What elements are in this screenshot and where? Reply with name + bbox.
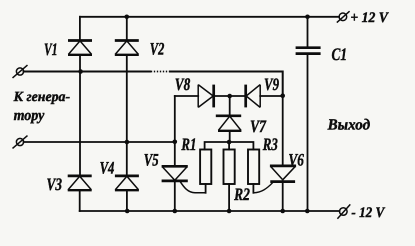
svg-text:R3: R3 — [262, 134, 278, 154]
svg-text:C1: C1 — [332, 44, 348, 64]
svg-text:- 12 V: - 12 V — [351, 205, 385, 221]
wire R2 bottom lead — [228, 184, 230, 211]
svg-text:V9: V9 — [264, 74, 279, 94]
wire R3 bottom lead — [252, 184, 254, 193]
resistor R2 — [224, 150, 235, 185]
wire resistor top bus — [205, 142, 254, 150]
wire V8 anode — [175, 95, 198, 97]
wire phase-1 to right corner — [170, 72, 283, 97]
capacitor C1 — [296, 48, 321, 54]
svg-text:К генера-: К генера- — [13, 90, 71, 105]
diode V4 — [115, 176, 139, 190]
node V4 bottom rail — [125, 209, 130, 214]
terminal +12V — [337, 11, 350, 22]
wire V8-V9 cathode junction — [214, 95, 246, 97]
node V9 anode corner — [280, 93, 285, 98]
zener V7 — [216, 116, 242, 131]
svg-text:R2: R2 — [233, 184, 250, 204]
wire V5 anode — [174, 142, 176, 166]
wire V6 anode column — [282, 96, 284, 166]
node V5 bottom rail — [173, 209, 178, 214]
svg-text:V6: V6 — [288, 149, 304, 169]
svg-text:R1: R1 — [181, 134, 197, 154]
svg-text:V4: V4 — [100, 157, 115, 177]
wire V5-V8 node vertical — [174, 96, 176, 142]
svg-text:V2: V2 — [150, 38, 165, 58]
node C1 top rail — [305, 14, 310, 19]
node phase-2 / V2-V4 — [125, 140, 130, 145]
svg-text:V7: V7 — [250, 116, 267, 136]
node V8-V9 cathodes — [227, 94, 232, 99]
wire V5 cathode to bottom rail — [174, 181, 176, 211]
node phase-2 / V5 — [173, 140, 178, 145]
svg-text:V5: V5 — [144, 149, 159, 169]
terminal input phase-1 — [13, 65, 28, 78]
terminal -12V — [337, 204, 350, 218]
wire phase-1 dotted segment — [151, 71, 170, 73]
diode V2 — [115, 41, 139, 55]
diode V9 — [246, 85, 261, 108]
thyristor V5 — [162, 166, 188, 181]
diode V8 — [198, 85, 214, 108]
diode V1 — [68, 41, 92, 55]
svg-text:V8: V8 — [175, 74, 191, 94]
wire V9 anode — [260, 95, 283, 97]
node V7 / R bus — [227, 140, 232, 145]
wire V7 cathode up — [229, 96, 231, 116]
svg-text:V3: V3 — [47, 174, 63, 194]
wire R1 bottom lead — [205, 184, 207, 193]
diode V3 — [68, 176, 92, 190]
thyristor V6 — [270, 166, 296, 182]
node C1 bottom rail — [305, 209, 310, 214]
wire V5 gate squiggle — [180, 181, 206, 193]
wire V2-V4 column — [126, 17, 128, 211]
wire bottom rail — [80, 210, 340, 212]
wire top rail — [80, 16, 339, 18]
wire left column V1-V3 — [79, 17, 81, 211]
node phase-1 / V1-V3 — [78, 69, 83, 74]
wire phase-2 from terminal — [24, 141, 175, 143]
wire V6 cathode to bottom rail — [282, 181, 284, 211]
wire C1 column — [307, 17, 309, 211]
resistor R3 — [248, 150, 259, 185]
wire V7 anode down — [229, 131, 231, 142]
terminal input phase-2 — [13, 136, 28, 149]
node V2 top rail — [125, 14, 130, 19]
resistor R1 — [200, 150, 211, 185]
node R2 bottom rail — [227, 209, 232, 214]
svg-text:Выход: Выход — [327, 116, 371, 133]
wire V6 gate squiggle — [253, 183, 272, 193]
svg-text:V1: V1 — [44, 39, 58, 59]
node V6 bottom rail — [280, 209, 285, 214]
svg-text:+ 12 V: + 12 V — [350, 10, 389, 26]
wire phase-1 from terminal — [24, 71, 150, 73]
svg-text:тору: тору — [14, 107, 45, 124]
